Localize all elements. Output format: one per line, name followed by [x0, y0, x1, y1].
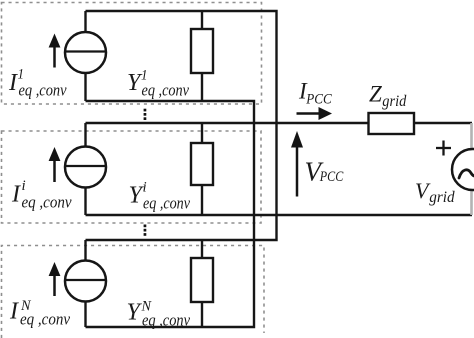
svg-text:eq ,conv: eq ,conv [22, 193, 72, 212]
svg-text:I: I [9, 299, 19, 325]
svg-text:I: I [11, 182, 21, 208]
svg-text:Z: Z [369, 82, 382, 107]
svg-text:grid: grid [382, 93, 406, 110]
svg-text:PCC: PCC [305, 91, 332, 107]
svg-text:I: I [8, 70, 18, 96]
svg-text:eq ,conv: eq ,conv [142, 311, 190, 330]
svg-text:eq ,conv: eq ,conv [143, 194, 190, 213]
svg-text:eq ,conv: eq ,conv [142, 81, 190, 100]
svg-text:eq ,conv: eq ,conv [19, 81, 67, 100]
svg-text:grid: grid [429, 189, 455, 206]
svg-text:Y: Y [127, 300, 143, 326]
svg-text:PCC: PCC [319, 169, 344, 185]
svg-text:eq ,conv: eq ,conv [20, 310, 70, 329]
